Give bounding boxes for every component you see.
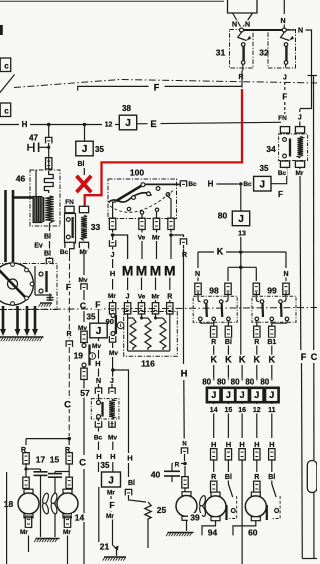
svg-text:12: 12: [105, 122, 113, 129]
svg-text:Bl: Bl: [225, 474, 232, 481]
svg-text:Bl: Bl: [78, 161, 85, 168]
svg-text:R: R: [211, 339, 216, 346]
svg-text:K: K: [239, 355, 246, 365]
svg-text:F: F: [66, 282, 71, 292]
svg-text:J: J: [238, 214, 244, 225]
svg-text:FN: FN: [65, 199, 74, 206]
svg-text:H: H: [226, 440, 231, 449]
svg-text:Mv: Mv: [92, 343, 101, 350]
svg-text:39: 39: [190, 513, 200, 523]
svg-text:Mr: Mr: [296, 170, 304, 177]
svg-text:80: 80: [217, 378, 226, 387]
svg-text:H: H: [95, 359, 100, 368]
svg-text:35: 35: [260, 164, 269, 173]
svg-text:N: N: [245, 22, 250, 29]
svg-text:80: 80: [231, 378, 240, 387]
svg-text:Mv: Mv: [108, 434, 117, 441]
svg-text:116: 116: [141, 359, 155, 369]
svg-text:Bc: Bc: [60, 249, 69, 256]
svg-text:15: 15: [50, 455, 60, 465]
svg-text:15: 15: [225, 407, 233, 414]
svg-text:80: 80: [202, 378, 211, 387]
svg-text:C: C: [79, 457, 86, 468]
svg-text:35: 35: [101, 461, 110, 470]
svg-text:Bl: Bl: [44, 234, 51, 241]
svg-text:N: N: [96, 378, 101, 385]
svg-text:R: R: [167, 294, 172, 301]
svg-text:Bl: Bl: [225, 339, 232, 346]
svg-text:H: H: [22, 120, 28, 129]
svg-text:J: J: [269, 390, 274, 400]
svg-text:R: R: [254, 474, 259, 481]
svg-text:B1: B1: [267, 339, 276, 346]
svg-text:98: 98: [209, 286, 219, 296]
svg-text:12: 12: [253, 407, 261, 414]
svg-text:Mr: Mr: [20, 529, 28, 536]
svg-text:F: F: [154, 83, 160, 93]
svg-text:Mr: Mr: [63, 529, 71, 536]
svg-text:25: 25: [157, 505, 167, 515]
svg-text:Ve: Ve: [138, 234, 146, 241]
svg-text:FN: FN: [278, 115, 287, 122]
svg-text:H: H: [208, 179, 214, 188]
svg-text:M: M: [164, 264, 176, 279]
svg-text:R: R: [175, 461, 180, 468]
svg-text:19: 19: [74, 351, 84, 361]
svg-text:J: J: [111, 252, 115, 259]
svg-text:C: C: [64, 399, 71, 410]
svg-text:38: 38: [122, 104, 131, 113]
svg-text:99: 99: [267, 286, 277, 296]
svg-text:100: 100: [130, 168, 144, 178]
svg-text:35: 35: [87, 313, 96, 322]
svg-text:Mr: Mr: [152, 293, 160, 300]
svg-text:M: M: [122, 264, 134, 279]
svg-text:J: J: [82, 144, 88, 155]
svg-text:Mr: Mr: [107, 489, 115, 496]
svg-text:K: K: [217, 247, 224, 257]
svg-text:31: 31: [216, 48, 226, 58]
svg-text:J: J: [126, 294, 130, 301]
svg-text:J: J: [254, 390, 259, 400]
svg-text:H: H: [181, 368, 188, 379]
svg-text:94: 94: [208, 527, 218, 537]
svg-text:Mv: Mv: [109, 350, 118, 357]
svg-text:18: 18: [4, 499, 14, 509]
svg-text:J: J: [283, 75, 287, 82]
svg-text:33: 33: [91, 222, 101, 232]
svg-text:Bc: Bc: [278, 170, 287, 177]
svg-text:H: H: [239, 440, 244, 449]
svg-text:60: 60: [248, 527, 258, 537]
svg-text:N: N: [232, 22, 237, 29]
svg-text:R: R: [66, 331, 71, 338]
svg-text:H: H: [96, 452, 101, 461]
svg-text:47: 47: [29, 134, 38, 143]
svg-text:Mr: Mr: [152, 234, 160, 241]
svg-text:J: J: [260, 179, 266, 190]
svg-text:J: J: [240, 390, 245, 400]
svg-text:H: H: [254, 440, 259, 449]
svg-text:K: K: [210, 355, 217, 365]
svg-text:N: N: [298, 28, 303, 35]
svg-text:14: 14: [75, 513, 85, 523]
svg-text:Mv: Mv: [78, 277, 87, 284]
svg-text:Bc: Bc: [243, 181, 252, 188]
svg-text:32: 32: [259, 48, 269, 58]
svg-text:J: J: [298, 115, 302, 122]
svg-text:N: N: [182, 442, 186, 448]
svg-text:N: N: [280, 18, 285, 25]
svg-text:57: 57: [80, 388, 90, 398]
svg-text:34: 34: [266, 144, 276, 154]
svg-text:40: 40: [151, 470, 161, 480]
svg-text:C: C: [311, 352, 317, 362]
svg-text:Mr: Mr: [106, 513, 114, 520]
svg-text:Mr: Mr: [108, 293, 116, 300]
svg-text:80: 80: [245, 378, 254, 387]
svg-text:H: H: [269, 440, 274, 449]
svg-text:Bc: Bc: [94, 434, 103, 441]
svg-text:N: N: [195, 271, 200, 278]
svg-text:Bl: Bl: [128, 480, 135, 487]
svg-text:Bl: Bl: [44, 251, 51, 258]
svg-text:H: H: [110, 269, 115, 278]
svg-text:F: F: [109, 500, 114, 510]
svg-text:Bc: Bc: [188, 181, 197, 188]
svg-text:M: M: [136, 264, 148, 279]
svg-text:35: 35: [95, 145, 104, 154]
svg-text:21: 21: [100, 542, 110, 552]
svg-text:J: J: [125, 118, 131, 129]
svg-text:F: F: [278, 190, 283, 199]
svg-text:R: R: [211, 474, 216, 481]
svg-text:R: R: [238, 74, 243, 81]
svg-text:E: E: [150, 119, 156, 130]
svg-text:K: K: [254, 355, 261, 365]
svg-text:H: H: [211, 440, 216, 449]
svg-text:80: 80: [260, 378, 269, 387]
svg-text:F: F: [95, 300, 100, 310]
svg-text:13: 13: [238, 231, 246, 238]
svg-text:J: J: [226, 390, 231, 400]
svg-text:J: J: [110, 378, 114, 385]
svg-text:c: c: [4, 107, 9, 116]
svg-text:Bl: Bl: [268, 474, 275, 481]
svg-text:17: 17: [36, 455, 46, 465]
svg-text:J: J: [108, 476, 114, 487]
svg-text:c: c: [4, 62, 9, 71]
svg-text:Ev: Ev: [34, 243, 43, 250]
svg-text:R: R: [254, 339, 259, 346]
svg-text:16: 16: [238, 407, 246, 414]
svg-text:K: K: [225, 355, 232, 365]
svg-text:N: N: [283, 271, 288, 278]
svg-text:F: F: [282, 92, 287, 101]
svg-text:80: 80: [218, 211, 228, 221]
svg-text:46: 46: [16, 174, 26, 184]
svg-text:14: 14: [210, 407, 218, 414]
svg-text:J: J: [96, 326, 102, 337]
svg-text:K: K: [269, 355, 276, 365]
svg-text:F: F: [301, 352, 307, 362]
svg-text:J: J: [211, 390, 216, 400]
svg-text:H: H: [110, 452, 115, 461]
svg-text:H: H: [127, 454, 132, 463]
svg-text:11: 11: [268, 407, 276, 414]
svg-text:R: R: [182, 252, 187, 259]
svg-text:Ve: Ve: [138, 293, 146, 300]
svg-text:M: M: [150, 264, 162, 279]
